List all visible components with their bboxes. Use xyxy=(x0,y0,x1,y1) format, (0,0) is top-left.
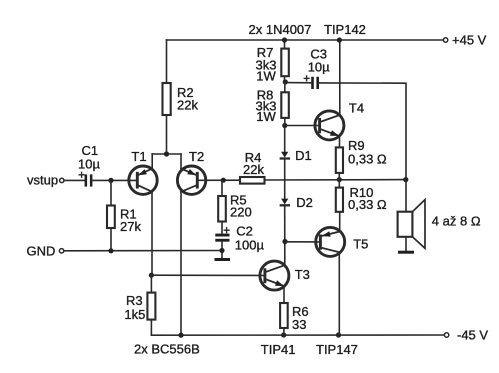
node D2/T5 base/T3 collector xyxy=(282,239,287,244)
svg-text:+45 V: +45 V xyxy=(452,33,487,48)
node R8/T4 base/D1 junction xyxy=(282,123,287,128)
capacitor C1 10u xyxy=(78,143,100,187)
capacitor C3 10u xyxy=(285,46,330,89)
node C2/GND junction xyxy=(219,248,224,253)
wire GND line xyxy=(64,250,222,252)
resistor R10 xyxy=(336,180,387,232)
svg-text:0,33 Ω: 0,33 Ω xyxy=(348,197,387,212)
svg-text:27k: 27k xyxy=(120,219,141,234)
transistor T5 (TIP147 PNP) xyxy=(316,227,369,256)
svg-text:220: 220 xyxy=(230,205,252,220)
svg-text:R3: R3 xyxy=(126,293,143,308)
svg-text:10µ: 10µ xyxy=(78,157,100,172)
svg-text:100µ: 100µ xyxy=(235,238,265,253)
node emitter bar junction xyxy=(164,151,169,156)
transistor T3 (TIP41 NPN) xyxy=(260,261,310,290)
resistor R6 xyxy=(280,286,309,335)
wire T3 base line xyxy=(151,274,265,276)
wire T5 collector to rail xyxy=(338,252,340,335)
svg-text:4 až 8 Ω: 4 až 8 Ω xyxy=(432,214,481,229)
resistor R1 xyxy=(107,180,141,250)
resistor R3 xyxy=(124,275,155,335)
resistor R5 xyxy=(218,180,252,233)
wire R4 to output node xyxy=(265,179,406,181)
svg-text:T2: T2 xyxy=(189,149,204,164)
wire T1 collector down xyxy=(151,192,153,276)
node output/C3/speaker xyxy=(403,177,408,182)
svg-text:2x 1N4007: 2x 1N4007 xyxy=(249,22,312,37)
wire C3 right to corner and down to output xyxy=(319,83,406,178)
svg-text:10µ: 10µ xyxy=(308,60,330,75)
wire C2 to GND node xyxy=(221,242,223,258)
svg-text:D1: D1 xyxy=(295,148,312,163)
wire T2 base to R4 xyxy=(197,179,240,181)
node T2 collector on rail xyxy=(178,333,183,338)
wire output node to speaker xyxy=(405,180,407,212)
svg-text:-45 V: -45 V xyxy=(457,328,488,343)
transistor T1 (BC556B PNP) xyxy=(129,149,157,194)
svg-text:1k5: 1k5 xyxy=(124,307,145,322)
wire emitter bar T1-T2 xyxy=(152,153,181,155)
node T1 collector/R3/T3 base xyxy=(149,273,154,278)
resistor R2 xyxy=(163,83,199,115)
svg-text:1W: 1W xyxy=(256,109,276,124)
diode D1 xyxy=(281,126,312,164)
svg-text:D2: D2 xyxy=(296,195,313,210)
wire R2 top lead xyxy=(166,40,168,83)
resistor R8 xyxy=(256,82,289,126)
svg-text:1W: 1W xyxy=(256,69,276,84)
node R7/R8/C3 junction xyxy=(283,79,288,84)
resistor R9 xyxy=(336,136,387,180)
resistor R7 xyxy=(256,40,289,84)
diode D2 xyxy=(281,195,313,210)
wire T1 emitter lead xyxy=(151,154,153,169)
wire R2 bottom lead to emitter bar xyxy=(166,115,168,154)
node C1/R1/T1 junction xyxy=(108,178,113,183)
svg-text:0,33 Ω: 0,33 Ω xyxy=(348,152,387,167)
wire T2 emitter lead xyxy=(180,154,182,169)
node T4 collector on rail xyxy=(337,37,342,42)
node T2 base/R5/R4 junction xyxy=(221,178,226,183)
svg-text:T4: T4 xyxy=(349,101,364,116)
terminal GND xyxy=(59,249,63,253)
node R6 on rail xyxy=(281,332,286,337)
node output R9/R10 xyxy=(337,177,342,182)
wire input to C1 xyxy=(64,179,84,181)
ground bar below C2 xyxy=(215,258,231,261)
terminal vstup input xyxy=(60,178,64,182)
resistor R4 xyxy=(240,150,265,184)
terminal -45 V xyxy=(444,333,448,337)
node R7 top on rail xyxy=(282,37,287,42)
wire D1 to D2 xyxy=(284,159,286,199)
svg-text:C2: C2 xyxy=(236,224,253,239)
wire T2 collector down xyxy=(180,192,182,336)
transistor T4 (TIP142 NPN) xyxy=(315,101,364,140)
wire D2 to T3 collector xyxy=(284,205,286,265)
svg-text:TIP41: TIP41 xyxy=(261,342,296,357)
svg-text:22k: 22k xyxy=(243,162,264,177)
svg-text:T5: T5 xyxy=(353,237,368,252)
terminal +45 V xyxy=(443,38,447,42)
svg-text:22k: 22k xyxy=(177,98,198,113)
speaker 4 az 8 ohm xyxy=(398,200,481,254)
capacitor C2 100u xyxy=(215,224,264,253)
transistor T2 (BC556B PNP) xyxy=(177,149,205,194)
wire bottom -45V rail xyxy=(151,334,444,336)
wire T4 collector to rail xyxy=(339,40,341,115)
node T5 collector on rail xyxy=(336,332,341,337)
svg-text:33: 33 xyxy=(292,317,306,332)
svg-text:vstup: vstup xyxy=(27,173,58,188)
wire T5 base line xyxy=(285,241,320,243)
svg-text:TIP147: TIP147 xyxy=(316,342,358,357)
svg-text:T3: T3 xyxy=(295,267,310,282)
wire C1 to T1 base xyxy=(92,179,137,181)
svg-text:TIP142: TIP142 xyxy=(324,22,366,37)
wire top +45V rail xyxy=(167,39,444,41)
wire T4 base xyxy=(285,125,320,127)
svg-text:GND: GND xyxy=(27,244,56,259)
svg-text:T1: T1 xyxy=(131,149,146,164)
node R1/GND junction xyxy=(108,248,113,253)
svg-text:2x BC556B: 2x BC556B xyxy=(134,342,200,357)
